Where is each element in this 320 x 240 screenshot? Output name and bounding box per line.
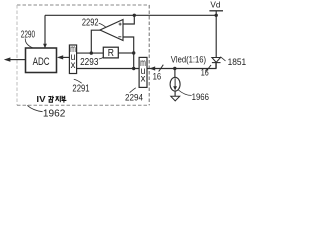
leader 1962	[27, 105, 42, 111]
node R right junction	[132, 51, 135, 54]
svg-text:16: 16	[153, 71, 162, 81]
wire plus input stub	[123, 15, 134, 24]
wire bus mux2291 to mux2294	[77, 68, 140, 70]
svg-text:1962: 1962	[43, 108, 66, 119]
dashed box IV sensing unit 1962	[17, 5, 149, 105]
arrow mux2291 to ADC	[63, 56, 70, 58]
hangul 부	[61, 96, 66, 103]
svg-text:x: x	[141, 74, 146, 85]
node op-amp output junction	[90, 51, 93, 54]
svg-text:1966: 1966	[192, 92, 209, 102]
ADC U2290	[26, 48, 57, 73]
wire to current source	[174, 69, 176, 78]
bus slash 16 left	[159, 65, 164, 72]
leader 2292	[99, 23, 106, 27]
svg-text:2293: 2293	[80, 57, 99, 68]
LED 1851	[212, 58, 221, 63]
leader 2291	[74, 79, 82, 83]
current source 1966	[170, 77, 180, 91]
svg-text:2290: 2290	[21, 29, 35, 40]
leader 1966	[178, 90, 191, 95]
op-amp 2292	[100, 20, 123, 41]
node plus stub to rail	[133, 14, 136, 17]
mux 2294	[139, 57, 147, 87]
wire top rail	[45, 14, 216, 16]
leader 2290	[25, 39, 33, 49]
svg-text:1851: 1851	[228, 57, 246, 67]
svg-text:16: 16	[201, 67, 209, 77]
wire minus input stub	[123, 37, 134, 69]
node Vd rail junction	[215, 14, 218, 17]
node current source tap	[173, 67, 176, 70]
leader 2294	[130, 88, 136, 93]
node bus junction	[132, 67, 135, 70]
bus slash 16 right	[206, 65, 211, 71]
wire into ADC top	[44, 15, 46, 44]
svg-text:2294: 2294	[125, 92, 143, 103]
wire Vled bus	[147, 63, 216, 69]
svg-text:R: R	[108, 47, 115, 59]
resistor R 2293	[103, 47, 118, 58]
svg-text:ADC: ADC	[33, 56, 50, 68]
ground	[171, 96, 180, 101]
svg-text:2291: 2291	[72, 84, 90, 95]
ADC output arrow	[10, 59, 26, 61]
wire op-amp output	[91, 30, 100, 53]
svg-text:Vd: Vd	[210, 1, 220, 10]
mux 2291	[69, 45, 76, 74]
leader 1851	[220, 57, 225, 61]
hangul 지	[56, 96, 61, 102]
wire to ground	[174, 91, 176, 96]
leader 2293	[99, 55, 104, 59]
svg-text:Vled(1:16): Vled(1:16)	[171, 54, 206, 64]
svg-text:x: x	[71, 60, 76, 71]
svg-text:IV: IV	[36, 94, 46, 104]
hangul 감	[48, 96, 54, 102]
svg-text:2292: 2292	[82, 18, 99, 29]
wire mux2291 to R	[77, 52, 104, 54]
wire R right	[118, 52, 133, 54]
